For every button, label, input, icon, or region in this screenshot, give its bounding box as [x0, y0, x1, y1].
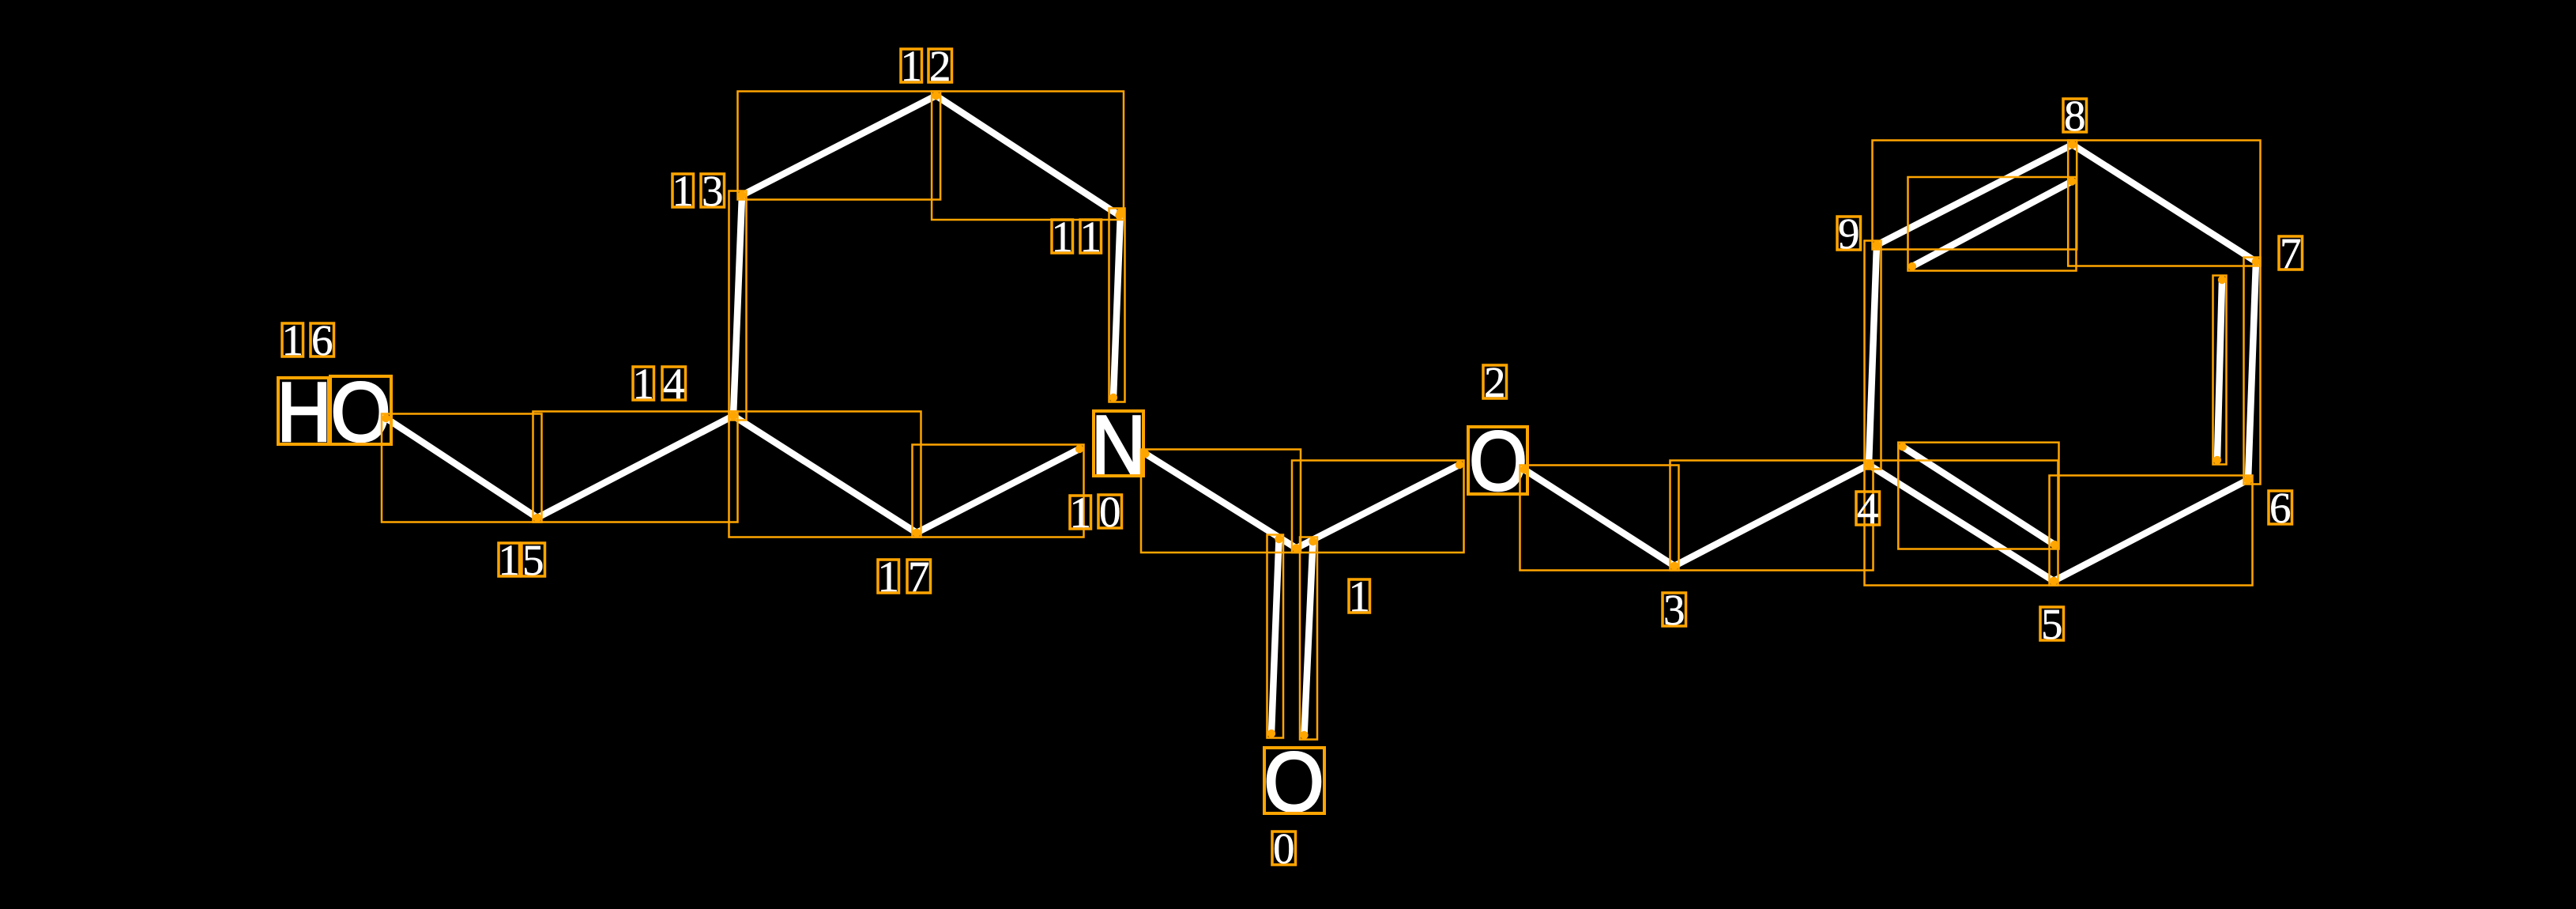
- bond C5-C6: [2054, 480, 2248, 581]
- bounding box and endpoint dots of bond O16-C15: [382, 414, 542, 522]
- bond C14-C13: [733, 195, 742, 416]
- atom C3 marker dot: [1670, 562, 1678, 570]
- bounding box and endpoint dots of bond C8-C9: [1873, 141, 2077, 250]
- atom C13 marker dot: [738, 191, 746, 199]
- bounding box and endpoint dots of double bond C1=O0 line 2: [1300, 537, 1317, 740]
- index label 13 for atom C13: [672, 167, 724, 215]
- index label 1 for atom C1: [1348, 572, 1370, 620]
- bounding box and endpoint dots of bond C5-C6: [2050, 476, 2253, 586]
- bounding box and endpoint dots of double bond C6=C7 inner line: [2213, 276, 2227, 465]
- bounding box and endpoint dots of bond C17-N10: [913, 445, 1084, 537]
- atom C17 marker dot: [913, 529, 921, 537]
- bond C17-N10: [917, 449, 1079, 533]
- svg-text:4: 4: [663, 360, 685, 408]
- svg-text:3: 3: [1663, 586, 1685, 634]
- index label 15 for atom C15: [498, 536, 544, 584]
- svg-text:1: 1: [632, 360, 654, 408]
- bounding box and endpoint dots of bond C1-O2: [1292, 461, 1464, 553]
- index label 0 for atom O0: [1272, 824, 1296, 873]
- index label 4 for atom C4: [1856, 485, 1880, 533]
- index label 11 for atom C11: [1051, 213, 1102, 261]
- double bond C1=O0 line 1: [1271, 539, 1279, 734]
- svg-text:1: 1: [1079, 213, 1102, 261]
- svg-text:7: 7: [908, 553, 930, 601]
- atom C5 marker dot: [2050, 577, 2058, 585]
- index label 3 for atom C3: [1663, 586, 1686, 634]
- svg-text:1: 1: [877, 553, 899, 601]
- svg-text:8: 8: [2064, 92, 2086, 140]
- bond C7-C8: [2073, 145, 2256, 262]
- svg-text:6: 6: [311, 316, 333, 364]
- bounding box and endpoint dots of bond O2-C3: [1520, 466, 1679, 571]
- svg-text:1: 1: [498, 536, 520, 584]
- double bond C4=C5 inner line: [1903, 447, 2054, 545]
- atom C15 marker dot: [533, 514, 541, 522]
- bounding box and endpoint dots of bond N10-C1: [1141, 450, 1301, 553]
- atom C9 marker dot: [1873, 241, 1881, 249]
- index label 6 for atom C6: [2269, 484, 2292, 532]
- svg-text:6: 6: [2269, 484, 2292, 532]
- svg-text:2: 2: [929, 42, 951, 90]
- bounding box and endpoint dots of bond C13-C12: [738, 92, 941, 200]
- atom C6 marker dot: [2244, 476, 2252, 484]
- svg-text:5: 5: [2041, 600, 2063, 648]
- index label 5 for atom C5: [2040, 600, 2064, 648]
- bounding box and endpoint dots of bond C3-C4: [1670, 461, 1874, 571]
- index label 2 for atom O2: [1483, 358, 1507, 406]
- bounding box and endpoint dots of bond C6-C7: [2244, 258, 2261, 485]
- svg-text:5: 5: [522, 536, 544, 584]
- bond C8-C9: [1877, 145, 2073, 245]
- index label 14 for atom C14: [632, 360, 685, 408]
- bond C1-O2: [1297, 465, 1460, 549]
- index label 8 for atom C8: [2063, 92, 2087, 140]
- atom C14 marker dot: [729, 412, 737, 420]
- svg-text:1: 1: [672, 167, 694, 215]
- index label 10 for atom N10: [1069, 488, 1121, 537]
- atom C11 marker dot: [1117, 209, 1124, 217]
- bounding box and endpoint dots of bond C4-C5: [1865, 461, 2058, 586]
- bounding box of atom O0 glyph O: [1264, 748, 1324, 813]
- index label 17 for atom C17: [877, 553, 930, 601]
- svg-text:1: 1: [1051, 213, 1073, 261]
- bounding box of atom O16 label O of HO: [330, 376, 391, 444]
- bounding box and endpoint dots of double bond C1=O0 line 1: [1267, 535, 1284, 738]
- bond C9-C4: [1869, 245, 1877, 465]
- bounding box and endpoint dots of bond C15-C14: [533, 412, 738, 522]
- bond O2-C3: [1524, 470, 1674, 566]
- bounding box and endpoint dots of bond C14-C17: [729, 412, 921, 537]
- atom C12 marker dot: [932, 92, 940, 100]
- bounding box and endpoint dots of double bond C8=C9 inner line: [1908, 177, 2077, 271]
- double bond C6=C7 inner line: [2217, 280, 2222, 460]
- bond C15-C14: [537, 416, 733, 518]
- bounding box of atom O16 label H of HO: [278, 378, 329, 444]
- bounding box and endpoint dots of bond C9-C4: [1865, 241, 1881, 470]
- bounding box and endpoint dots of bond C7-C8: [2068, 141, 2260, 266]
- svg-text:9: 9: [1838, 209, 1860, 258]
- bond O16-C15: [386, 418, 538, 518]
- bond C14-C17: [733, 416, 917, 533]
- atom C4 marker dot: [1865, 461, 1873, 469]
- svg-text:1: 1: [1069, 488, 1091, 537]
- bounding box and endpoint dots of bond C14-C13: [729, 191, 747, 421]
- bond C6-C7: [2248, 262, 2256, 480]
- index label 12 for atom C12: [900, 42, 951, 90]
- svg-text:1: 1: [900, 42, 922, 90]
- svg-text:3: 3: [702, 167, 724, 215]
- bounding box of atom N10 glyph N: [1094, 411, 1143, 476]
- bond C13-C12: [742, 96, 936, 195]
- index label 9 for atom C9: [1837, 209, 1861, 258]
- svg-text:0: 0: [1099, 488, 1121, 536]
- atom C7 marker dot: [2252, 258, 2260, 266]
- svg-text:2: 2: [1484, 358, 1506, 406]
- double bond C1=O0 line 2: [1305, 541, 1313, 735]
- bond C3-C4: [1674, 465, 1869, 566]
- bond C12-C11: [936, 96, 1120, 216]
- index label 7 for atom C7: [2279, 229, 2303, 277]
- atom C1 marker dot: [1292, 544, 1300, 552]
- bounding box and endpoint dots of double bond C4=C5 inner line: [1898, 443, 2058, 549]
- svg-text:0: 0: [1273, 824, 1295, 873]
- bond C4-C5: [1869, 465, 2054, 581]
- svg-text:4: 4: [1857, 485, 1879, 533]
- svg-text:1: 1: [281, 316, 303, 364]
- bond N10-C1: [1146, 454, 1297, 549]
- svg-text:7: 7: [2280, 229, 2302, 277]
- bond C11-N10: [1113, 213, 1120, 398]
- svg-text:1: 1: [1348, 572, 1370, 620]
- bounding box of atom O2 glyph O: [1468, 427, 1527, 494]
- index label 16 for atom O16: [281, 316, 333, 364]
- bounding box and endpoint dots of bond C12-C11: [932, 92, 1124, 221]
- bounding box and endpoint dots of bond C11-N10: [1109, 209, 1125, 402]
- atom C8 marker dot: [2069, 141, 2077, 149]
- double bond C8=C9 inner line: [1912, 182, 2072, 267]
